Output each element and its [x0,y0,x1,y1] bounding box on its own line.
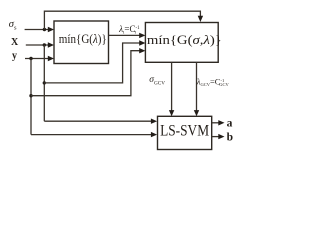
box U2 min{G(sigma,lambda)} [145,23,222,63]
wire X vertical down [43,45,45,121]
wire y branch into U2 [31,48,145,96]
wire lambda_GCV from U2 down into LS-SVM [194,62,199,116]
svg-text:b: b [227,132,233,144]
wire lambda=C^-1 from U1 to U2 [109,33,146,38]
svg-text:LS-SVM: LS-SVM [160,123,209,140]
wire X input [26,42,54,47]
wire X into LS-SVM [44,119,157,124]
wire y input [25,56,54,61]
junction y branch [29,57,32,60]
junction X branch [43,43,46,46]
wire sigma_s input [25,27,54,32]
svg-text:mín{G(σ,λ)}: mín{G(σ,λ)} [147,32,222,47]
box U1 min{G(lambda)} [54,21,109,64]
svg-text:y: y [12,51,17,62]
wire sigma_GCV from U2 down into LS-SVM [169,62,174,116]
junction y to U2 branch [29,94,32,97]
svg-text:mín{G(λ)}: mín{G(λ)} [59,31,107,46]
wire output b [212,134,225,139]
wire sigma_s feedforward over top into U2 [44,11,203,29]
junction sigma_s branch [43,28,46,31]
junction X to U2 branch [43,81,46,84]
svg-text:X: X [11,37,19,48]
box U3 LS-SVM [158,116,212,149]
wire y into LS-SVM [31,132,157,137]
wire y vertical down [30,59,32,135]
svg-text:a: a [227,117,233,129]
wire X branch into U2 [44,40,145,83]
wire output a [212,120,225,125]
